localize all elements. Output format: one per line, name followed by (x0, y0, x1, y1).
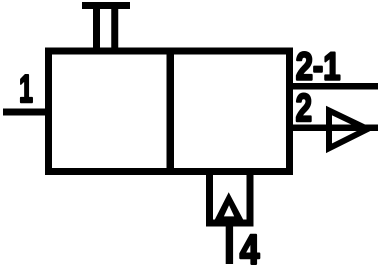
wire port 1 (3, 109, 49, 116)
svg-text:4: 4 (240, 228, 260, 265)
wire port 2-1 (287, 83, 378, 90)
pilot port left wall (206, 172, 213, 224)
exhaust symbol left leg (93, 2, 100, 51)
pilot port bottom bar (206, 220, 254, 227)
wire port 2 (287, 125, 378, 132)
svg-text:1: 1 (19, 67, 33, 110)
valve body divider (167, 48, 175, 176)
pilot arrow up inner cutout (224, 205, 234, 216)
svg-text:2-1: 2-1 (296, 45, 341, 88)
pilot port right wall (247, 172, 254, 224)
valve body outline (49, 51, 290, 172)
exhaust symbol top bar (82, 2, 130, 9)
exhaust symbol right leg (111, 2, 118, 51)
pilot arrow up outer (215, 192, 244, 220)
flow arrow on port 2 (329, 111, 368, 149)
svg-text:2: 2 (296, 87, 312, 130)
wire port 4 (226, 223, 233, 264)
